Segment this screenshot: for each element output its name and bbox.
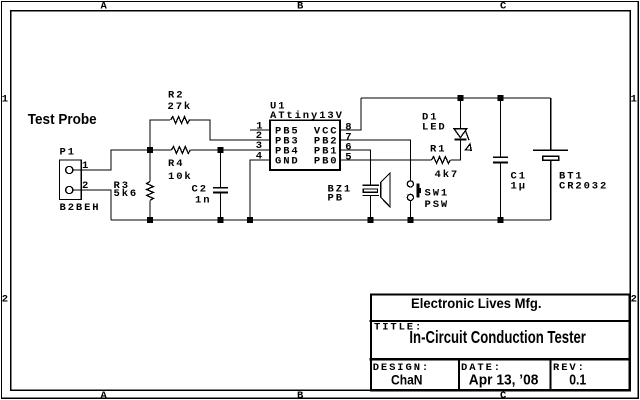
svg-text:2: 2 bbox=[2, 293, 10, 305]
LED D1 triangle bbox=[454, 129, 467, 138]
P1 pin 2 circle bbox=[66, 186, 73, 193]
node LED VCC rail bbox=[458, 95, 464, 101]
node C1 VCC rail bbox=[498, 95, 504, 101]
connector P1 box bbox=[60, 160, 82, 200]
svg-text:B2BEH: B2BEH bbox=[60, 202, 101, 214]
svg-text:1: 1 bbox=[2, 94, 10, 106]
pin 8 wire to VCC rail bbox=[340, 98, 361, 130]
svg-text:A: A bbox=[101, 1, 109, 13]
resistor R3 vertical zigzag bbox=[149, 150, 151, 182]
LED D1 emission arrow bbox=[466, 131, 470, 140]
svg-text:10k: 10k bbox=[168, 171, 193, 183]
pin 7 wire to SW1 bbox=[340, 140, 411, 181]
svg-text:5k6: 5k6 bbox=[114, 188, 139, 200]
VCC top rail bbox=[361, 97, 551, 99]
svg-text:1µ: 1µ bbox=[511, 181, 527, 193]
node R2/R3/R4 junction bbox=[147, 147, 153, 153]
svg-text:4k7: 4k7 bbox=[435, 169, 460, 181]
ground rail bbox=[111, 219, 551, 221]
wire P1 pin1 to riser bbox=[73, 150, 150, 170]
node dots bbox=[147, 95, 504, 223]
svg-text:A: A bbox=[101, 390, 109, 400]
svg-text:2: 2 bbox=[631, 293, 639, 305]
svg-text:Apr 13, ’08: Apr 13, ’08 bbox=[469, 373, 539, 389]
svg-text:5: 5 bbox=[345, 151, 353, 163]
node C2 ground bbox=[218, 217, 224, 223]
svg-text:R1: R1 bbox=[430, 144, 446, 156]
svg-text:27k: 27k bbox=[168, 101, 193, 113]
svg-text:ATtiny13V: ATtiny13V bbox=[270, 110, 344, 122]
capacitor C1 wires bbox=[500, 98, 502, 157]
svg-text:PB0: PB0 bbox=[314, 156, 339, 168]
pin 6 wire to buzzer bbox=[340, 150, 371, 185]
svg-text:PB: PB bbox=[328, 193, 344, 205]
svg-text:B: B bbox=[297, 1, 305, 13]
svg-text:LED: LED bbox=[422, 122, 447, 134]
svg-text:R4: R4 bbox=[168, 158, 184, 170]
svg-text:GND: GND bbox=[275, 156, 300, 168]
svg-text:CR2032: CR2032 bbox=[559, 181, 608, 193]
svg-text:0.1: 0.1 bbox=[569, 373, 586, 389]
wire node to R2 branch up bbox=[150, 120, 170, 150]
node SW1 ground bbox=[408, 217, 414, 223]
capacitor C2 plates bbox=[213, 187, 228, 189]
wire R1 to LED bbox=[451, 141, 461, 161]
LED D1 top wire bbox=[460, 98, 462, 129]
wire node to R4 bbox=[150, 149, 171, 151]
capacitor C1 plates bbox=[493, 157, 508, 159]
node GND pin ground bbox=[247, 217, 253, 223]
svg-text:1: 1 bbox=[631, 94, 639, 106]
svg-text:SW1: SW1 bbox=[425, 188, 450, 200]
P1 pin 1 circle bbox=[66, 166, 73, 173]
resistor R4 zigzag bbox=[171, 147, 190, 154]
wire R4 right to IC pin3 bbox=[190, 149, 270, 151]
node R3 ground bbox=[147, 217, 153, 223]
battery BT1 bottom wire bbox=[550, 160, 552, 220]
LED D1 cathode bar bbox=[455, 138, 467, 140]
svg-text:P1: P1 bbox=[60, 147, 76, 159]
svg-text:ChaN: ChaN bbox=[391, 373, 423, 388]
pin 1 stub bbox=[250, 129, 270, 131]
title block frame bbox=[370, 295, 631, 391]
battery BT1 top wire bbox=[550, 98, 552, 150]
capacitor C2 bottom wire bbox=[220, 194, 222, 220]
IC U1 box bbox=[270, 120, 340, 170]
svg-text:C: C bbox=[500, 1, 508, 13]
svg-text:1n: 1n bbox=[195, 195, 211, 207]
node C1 ground bbox=[498, 217, 504, 223]
switch SW1 bottom wire bbox=[409, 201, 411, 220]
resistor R2 zigzag bbox=[171, 117, 190, 124]
svg-text:In-Circuit Conduction Tester: In-Circuit Conduction Tester bbox=[409, 328, 586, 347]
wire R2 right to IC pin2 bbox=[189, 120, 270, 140]
buzzer BZ1 body plates bbox=[363, 184, 379, 186]
wire P1 pin2 down to ground rail bbox=[73, 190, 111, 220]
switch SW1 contacts bbox=[407, 181, 413, 187]
buzzer BZ1 wires bbox=[370, 195, 372, 220]
svg-text:C: C bbox=[500, 390, 508, 400]
pin 4 stub to ground bbox=[250, 160, 270, 220]
svg-text:B: B bbox=[297, 390, 305, 400]
buzzer BZ1 cone bbox=[381, 173, 390, 207]
battery BT1 short plate bbox=[543, 156, 559, 160]
pin 5 wire to R1 bbox=[340, 159, 432, 161]
svg-text:R2: R2 bbox=[168, 90, 184, 102]
switch SW1 actuator bbox=[416, 184, 419, 198]
svg-text:Test Probe: Test Probe bbox=[28, 112, 97, 128]
resistor R1 zigzag bbox=[432, 157, 451, 164]
node buzzer ground bbox=[368, 217, 374, 223]
node C2 top junction bbox=[218, 147, 224, 153]
capacitor C2 top wire bbox=[220, 150, 222, 187]
svg-text:Electronic Lives Mfg.: Electronic Lives Mfg. bbox=[411, 296, 542, 312]
battery BT1 long plate bbox=[533, 150, 568, 151]
svg-text:PSW: PSW bbox=[425, 199, 450, 211]
